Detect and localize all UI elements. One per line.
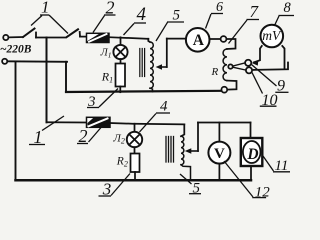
svg-text:1: 1 — [41, 0, 50, 17]
svg-text:A: A — [193, 32, 205, 49]
svg-text:8: 8 — [284, 0, 292, 16]
svg-text:V: V — [214, 146, 225, 162]
svg-text:2: 2 — [106, 0, 115, 18]
svg-text:4: 4 — [160, 99, 168, 115]
svg-text:~220В: ~220В — [0, 44, 32, 56]
svg-text:1: 1 — [34, 127, 43, 147]
svg-text:11: 11 — [275, 158, 289, 174]
svg-text:3: 3 — [102, 180, 112, 199]
svg-text:6: 6 — [216, 0, 223, 15]
svg-text:5: 5 — [173, 8, 181, 24]
svg-text:R: R — [211, 66, 219, 78]
svg-text:9: 9 — [277, 78, 285, 95]
svg-text:3: 3 — [87, 94, 96, 110]
svg-text:2: 2 — [79, 126, 88, 146]
svg-text:12: 12 — [255, 184, 270, 200]
svg-text:10: 10 — [262, 92, 278, 109]
svg-text:mV: mV — [262, 28, 282, 43]
svg-text:4: 4 — [137, 4, 147, 25]
svg-text:5: 5 — [193, 180, 201, 196]
svg-text:D: D — [246, 146, 258, 163]
